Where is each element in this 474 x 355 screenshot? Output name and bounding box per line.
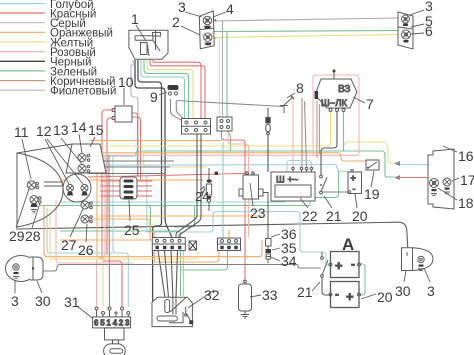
wire speedo lamp leads: [44, 182, 63, 186]
headlight shell 11 dome: [17, 144, 72, 227]
svg-text:12: 12: [36, 123, 52, 139]
fuse 36: [263, 193, 271, 247]
wire indicator lamp 27 lead: [91, 206, 151, 232]
wire black thick HT lead via switch 1 to strip C: [135, 60, 172, 238]
wire red long y177 to coil: [88, 174, 246, 178]
leader 20i: [361, 294, 376, 299]
condenser 33: [239, 280, 252, 318]
svg-text:27: 27: [61, 237, 77, 253]
svg-text:3: 3: [125, 319, 130, 328]
magneto connector 31: [93, 307, 131, 355]
legend wire Фиолетовый: [0, 86, 116, 98]
indicator lamp 26: [81, 215, 92, 223]
terminal strip C: [152, 238, 185, 251]
leader 17: [452, 178, 459, 181]
junction arrow green-red: [394, 175, 400, 180]
leader 14: [79, 134, 82, 153]
svg-text:25: 25: [124, 222, 140, 238]
wire orange from turnsignal bundle: [44, 205, 262, 257]
wire orange into strip D: [228, 230, 230, 238]
terminal strip D: [218, 238, 241, 251]
tail lamp housing 16: [428, 149, 454, 209]
svg-text:3: 3: [178, 0, 186, 15]
brake switch 9: [168, 85, 179, 95]
wire green drop from lamp unit 2 to strip B: [227, 32, 231, 152]
svg-text:13: 13: [53, 122, 69, 138]
svg-text:23: 23: [250, 205, 266, 221]
svg-text:15: 15: [88, 122, 104, 138]
wire green ground bus horizontal: [40, 205, 310, 207]
leader 16: [443, 146, 457, 152]
wire red from strip B to condenser 33: [222, 131, 246, 281]
wire pink from strip B to strip D: [228, 131, 249, 237]
wire yellow jog y167: [144, 153, 207, 167]
wire gray from switch 1 down left: [131, 60, 138, 177]
leader 11: [22, 139, 31, 179]
tail lamp 18: [430, 179, 439, 196]
svg-text:20: 20: [377, 289, 393, 305]
svg-text:+: +: [335, 258, 343, 273]
leader 25: [129, 200, 130, 221]
wire yellow rear jumper to junction arrow: [345, 142, 394, 163]
legend wire Серый: [0, 18, 86, 30]
wire gray drop from lamp unit 2: [222, 21, 224, 120]
svg-text:14: 14: [71, 119, 87, 135]
lamp 3 (front top): [203, 16, 216, 28]
wire black thick HT lead via switch 1 to generator: [138, 60, 162, 301]
wire brown 1 from ignition switch down: [316, 101, 318, 158]
svg-text:Ш~ЛК: Ш~ЛК: [321, 98, 347, 109]
battery 20: [348, 170, 362, 195]
wire blue left vertical: [113, 155, 128, 307]
wire blue y232 to battery inset: [147, 212, 330, 266]
leader 30r: [404, 271, 406, 282]
svg-text:21: 21: [326, 208, 342, 224]
svg-text:34: 34: [281, 253, 297, 269]
leader 3r2: [424, 268, 430, 282]
wire switch to battery lower: [322, 277, 330, 295]
leader 15: [90, 137, 95, 147]
wire black horn 8 lead long: [176, 101, 283, 107]
svg-text:6: 6: [94, 319, 99, 328]
wire indicator lamp 26 lead: [91, 219, 150, 240]
wire blue from turnsignal bundle: [47, 208, 113, 253]
leader 30: [37, 281, 42, 293]
svg-text:3: 3: [425, 0, 433, 14]
wire cyan vertical x146.8: [146, 175, 148, 232]
wire green from ignition down: [343, 111, 345, 151]
leader 35: [272, 248, 280, 250]
wire green top: front lamp to rear lamp unit: [214, 31, 398, 32]
headlamp 11: [27, 181, 38, 189]
leader 19: [371, 171, 374, 187]
wire yellow top: front lamp to rear lamp unit: [214, 35, 398, 38]
legend wire Желтый: [0, 37, 93, 49]
wire gray pair to regulator pins: [301, 98, 303, 167]
svg-text:3: 3: [427, 283, 435, 299]
leader 18: [438, 188, 457, 200]
indicator lamp 27: [81, 201, 92, 209]
svg-text:11: 11: [14, 124, 29, 140]
battery A upper box: [329, 252, 361, 278]
legend wire Коричневый: [0, 76, 115, 88]
connector block 25: [120, 177, 137, 199]
wire black from ignition to main switch 21: [321, 111, 337, 175]
wire horn 9 leg to strip A: [171, 99, 184, 120]
svg-text:6: 6: [425, 23, 433, 39]
wire pink loop around ignition switch 7: [313, 75, 359, 155]
svg-text:17: 17: [460, 172, 474, 188]
instrument panel 14/15: [66, 144, 106, 173]
svg-text:7: 7: [366, 96, 374, 112]
svg-text:5: 5: [100, 319, 105, 328]
wire gray left vertical: [108, 155, 111, 307]
svg-text:30: 30: [35, 293, 51, 309]
svg-text:21: 21: [297, 284, 313, 300]
svg-text:24: 24: [195, 189, 209, 204]
wire pink left vertical to magneto plug: [97, 155, 106, 307]
legend wire Красный: [0, 9, 96, 21]
wire green bus to generator: [60, 231, 181, 296]
lamp 3 (rear top): [402, 15, 410, 26]
voltage regulator 22: [271, 167, 315, 201]
wire yellow from turnsignal bundle: [50, 211, 198, 259]
svg-text:2: 2: [172, 14, 180, 30]
leader 21i: [312, 282, 320, 291]
leader 33: [250, 295, 261, 297]
leader 32: [188, 290, 214, 308]
wire yellow from ignition switch to left harness: [90, 111, 331, 146]
wire pink lower horizontal: [56, 200, 133, 263]
leader 6r: [411, 33, 424, 34]
leader 3r: [410, 10, 424, 15]
svg-text:4: 4: [226, 1, 234, 17]
wire yellow from switch 1 to strip A: [147, 60, 193, 120]
main switch 21 (inset): [321, 252, 328, 277]
wire teal from switch 1 to strip A: [141, 60, 185, 120]
svg-text:1: 1: [106, 319, 111, 328]
leader 9: [159, 92, 167, 95]
lamp 5/6 (rear lower): [402, 30, 411, 43]
svg-text:2: 2: [119, 319, 124, 328]
wire pink vertical near regulator: [292, 100, 294, 167]
svg-text:Ш +~: Ш +~: [276, 175, 299, 186]
wire pink vertical x154.5: [154, 232, 156, 263]
svg-text:28: 28: [25, 228, 41, 244]
wire red pair from relay 10 down right: [132, 113, 138, 177]
wire red 2 from switch 1 to strip A: [150, 60, 205, 120]
wire orange long top of strips: [60, 239, 152, 241]
ignition switch 7: [315, 70, 358, 112]
wire red pair from relay 10 down left: [102, 110, 122, 307]
wire pink long horizontal: [88, 154, 359, 156]
wire black center bundle 1: [176, 132, 197, 238]
leader 7: [353, 97, 365, 103]
leader 2: [181, 26, 200, 35]
wire black to regulator pin: [267, 108, 269, 118]
leader 31: [77, 306, 93, 319]
pilot lamp housing 30 (left): [6, 256, 44, 282]
leader 8: [287, 93, 295, 98]
svg-text:16: 16: [458, 148, 474, 164]
wire brown 2 from ignition switch down: [319, 104, 321, 154]
horn button 8: [280, 96, 294, 114]
leader 21: [324, 196, 332, 208]
wire green long horizontal to rear junction: [89, 151, 394, 177]
svg-text:Фиолетовый: Фиолетовый: [50, 86, 116, 98]
rear lamp unit housing (3,5,6): [398, 12, 413, 49]
svg-text:А: А: [342, 235, 354, 254]
wire yellow drop from lamp unit 2 to strip B: [219, 38, 221, 121]
wire blue horizontal y202: [60, 161, 312, 203]
svg-text:3: 3: [11, 293, 19, 309]
wire green from switch 1 to strip A: [144, 60, 189, 120]
spark plug 24: [201, 168, 212, 211]
pilot lamp 28/29 in shell: [30, 196, 41, 214]
wire gray top: front lamp to rear lamp unit: [214, 18, 398, 21]
wire black magneto leads: [158, 251, 178, 298]
leader 1: [136, 25, 146, 41]
wire connector 25 left leads: [100, 181, 120, 196]
speedometer 12: [63, 174, 91, 202]
wire black center bundle 2: [179, 132, 201, 238]
wire orange strip D down: [155, 250, 219, 262]
svg-text:10: 10: [118, 74, 134, 90]
svg-text:+: +: [351, 173, 356, 183]
wire green vertical jog near coil: [174, 206, 195, 228]
frame ground line: [16, 222, 408, 252]
svg-text:32: 32: [204, 287, 220, 303]
leader 23: [250, 183, 253, 206]
wire connector 25 right leads: [137, 181, 152, 196]
leader 4: [213, 12, 226, 17]
leader 3b: [14, 281, 16, 293]
wire teal strip D down: [181, 250, 228, 270]
legend wire Голубой: [0, 0, 94, 11]
wire green battery 20 negative: [310, 171, 339, 206]
leader 10: [123, 88, 125, 105]
generator 32: [152, 297, 193, 326]
fuse inline below horn lead: [266, 118, 270, 135]
battery A lower box: [329, 282, 361, 308]
legend wire Оранжевый: [0, 28, 113, 40]
leader 13: [61, 138, 82, 164]
wire orange left vertical bundle: [96, 148, 98, 257]
svg-text:4: 4: [113, 319, 118, 328]
svg-text:26: 26: [78, 242, 94, 258]
rear pilot lamp housing 30: [402, 248, 434, 271]
svg-text:+: +: [346, 289, 354, 304]
leader 3: [185, 12, 202, 17]
leader 27: [70, 209, 83, 237]
leader 12a: [45, 139, 69, 184]
wire red rear section to tail lamp: [400, 178, 432, 183]
leader 5r: [411, 24, 424, 27]
junction arrow yellow-blue: [394, 161, 400, 166]
diode block: [189, 241, 197, 250]
wire blue long horizontal to battery 20: [95, 165, 348, 172]
wire link battery boxes: [359, 264, 365, 295]
svg-text:18: 18: [458, 195, 474, 211]
inline connector on red wire: [215, 172, 218, 175]
wire gray from pilot lamp 30 long horizontal: [33, 265, 321, 272]
svg-text:8: 8: [296, 80, 304, 96]
svg-text:-: -: [335, 287, 339, 301]
lighting switch housing 1: [129, 30, 168, 59]
wire orange long horizontal to fuse 19: [88, 153, 366, 161]
svg-text:22: 22: [302, 208, 318, 224]
leader 26: [86, 224, 87, 242]
legend wire Черный: [0, 57, 92, 69]
lamp 2 (front lower): [204, 33, 217, 45]
svg-text:30: 30: [395, 283, 411, 299]
leader 29: [16, 189, 29, 228]
terminal strip A: [182, 119, 211, 135]
wire orange long horizontal mid: [90, 140, 221, 142]
relay box 10: [112, 106, 132, 122]
main switch 21: [320, 175, 348, 194]
wire orange horizontal y216: [100, 215, 262, 217]
wire red 1 from switch 1 to strip A: [153, 60, 201, 120]
svg-text:9: 9: [150, 89, 158, 105]
leader 28: [32, 203, 40, 228]
leader 34: [271, 257, 280, 261]
svg-text:-: -: [351, 257, 355, 271]
wire blue rear section to tail lamp: [400, 165, 447, 179]
svg-text:-: -: [353, 184, 356, 194]
svg-text:1: 1: [131, 11, 139, 27]
wire orange y180: [60, 179, 204, 181]
legend wire Розовый: [0, 47, 96, 59]
tail lamp 17: [443, 178, 451, 194]
svg-text:19: 19: [364, 186, 380, 202]
leader 12b: [47, 139, 83, 184]
wire blue along generator 32: [183, 251, 185, 297]
leader 22: [300, 198, 308, 208]
svg-text:33: 33: [262, 287, 278, 303]
svg-text:31: 31: [64, 294, 80, 310]
svg-text:29: 29: [9, 228, 25, 244]
wire yellow spur to magneto plug: [102, 259, 104, 307]
leader 36: [271, 234, 280, 237]
terminal strip B: [217, 117, 232, 131]
legend wire Зеленый: [0, 66, 97, 78]
svg-text:20: 20: [352, 208, 368, 224]
wire panel lamp leads right: [89, 161, 174, 174]
leader 20: [355, 194, 357, 208]
fuse box 19: [366, 160, 379, 170]
ignition coil 23: [239, 172, 263, 199]
front lamp unit 2 housing: [199, 11, 214, 49]
svg-text:ВЗ: ВЗ: [338, 84, 350, 95]
fuse holder 35/34: [266, 246, 272, 263]
